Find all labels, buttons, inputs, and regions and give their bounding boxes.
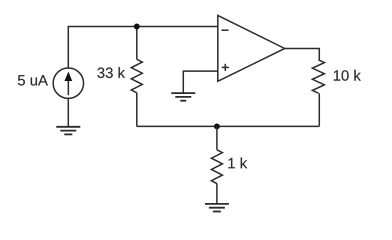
resistor R1 33 k bbox=[131, 59, 142, 92]
wire: 10k bottom lead to bottom rail bbox=[318, 93, 320, 126]
value label 10 k bbox=[334, 70, 361, 81]
node B: junction dot on bottom rail at 1k bbox=[214, 123, 220, 129]
op-amp plus sign (non-inverting input marker) bbox=[222, 66, 229, 68]
wire: bottom rail from 33k to 10k bbox=[137, 125, 319, 127]
node A: junction dot (source / 33k / op-amp minus) bbox=[134, 24, 140, 30]
resistor R2 10 k bbox=[312, 60, 324, 93]
wire: op-amp output to 10k bbox=[285, 48, 320, 59]
ground: below current source bbox=[56, 127, 80, 135]
current source I1 bbox=[53, 68, 83, 98]
wire: current source bottom lead bbox=[67, 98, 69, 126]
value label 33 k bbox=[97, 67, 125, 78]
ground: at op-amp non-inverting input bbox=[171, 93, 195, 101]
resistor R3 1 k bbox=[211, 150, 222, 184]
wire: op-amp plus input to ground stub bbox=[183, 71, 218, 93]
wire: 1k top lead bbox=[216, 126, 218, 149]
ground: below 1k resistor bbox=[205, 204, 229, 212]
value label 5 uA bbox=[18, 75, 48, 85]
wire: 1k bottom lead bbox=[216, 184, 218, 204]
op-amp U1 bbox=[218, 15, 285, 81]
wire: 33k bottom lead down to bottom rail bbox=[136, 93, 138, 127]
op-amp minus sign (inverting input marker) bbox=[221, 29, 228, 31]
wire: top rail from current source to op-amp inverting input bbox=[68, 27, 218, 69]
current source arrow (points up) bbox=[67, 80, 69, 95]
value label 1 k bbox=[228, 158, 247, 169]
wire: 33k top lead from junction down to resistor bbox=[136, 27, 138, 60]
